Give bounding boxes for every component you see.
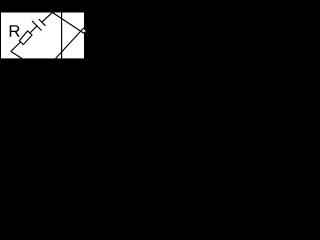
wire (56, 28, 84, 59)
node C notch at right edge (84, 30, 86, 32)
wire (52, 12, 84, 33)
capacitor C1 plate 2 (39, 19, 46, 26)
wire (42, 12, 52, 22)
capacitor C1 plate 1 (32, 21, 42, 31)
schematic canvas (white panel) (1, 13, 84, 59)
wire (11, 42, 21, 51)
resistor R1 (19, 31, 32, 45)
label R (10, 25, 20, 37)
wire (30, 26, 37, 33)
wire vertical (61, 13, 63, 59)
wire (11, 51, 22, 58)
